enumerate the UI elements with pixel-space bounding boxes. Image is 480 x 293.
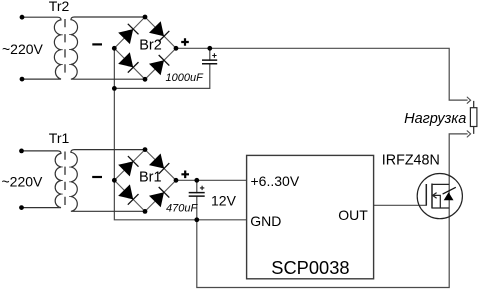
svg-text:Нагрузка: Нагрузка [404, 111, 466, 127]
svg-text:Br1: Br1 [139, 170, 162, 186]
svg-text:Tr1: Tr1 [49, 130, 70, 146]
svg-text:12V: 12V [211, 192, 237, 208]
svg-text:1000uF: 1000uF [166, 72, 205, 84]
svg-text:~220V: ~220V [2, 173, 44, 189]
svg-text:470uF: 470uF [166, 202, 198, 214]
svg-text:Tr2: Tr2 [49, 0, 70, 14]
svg-text:~220V: ~220V [2, 41, 44, 57]
svg-text:OUT: OUT [338, 207, 368, 223]
svg-text:+6..30V: +6..30V [251, 173, 300, 189]
svg-text:GND: GND [250, 213, 281, 229]
svg-text:IRFZ48N: IRFZ48N [382, 153, 440, 169]
svg-text:SCP0038: SCP0038 [271, 257, 349, 278]
svg-text:Br2: Br2 [139, 37, 162, 53]
